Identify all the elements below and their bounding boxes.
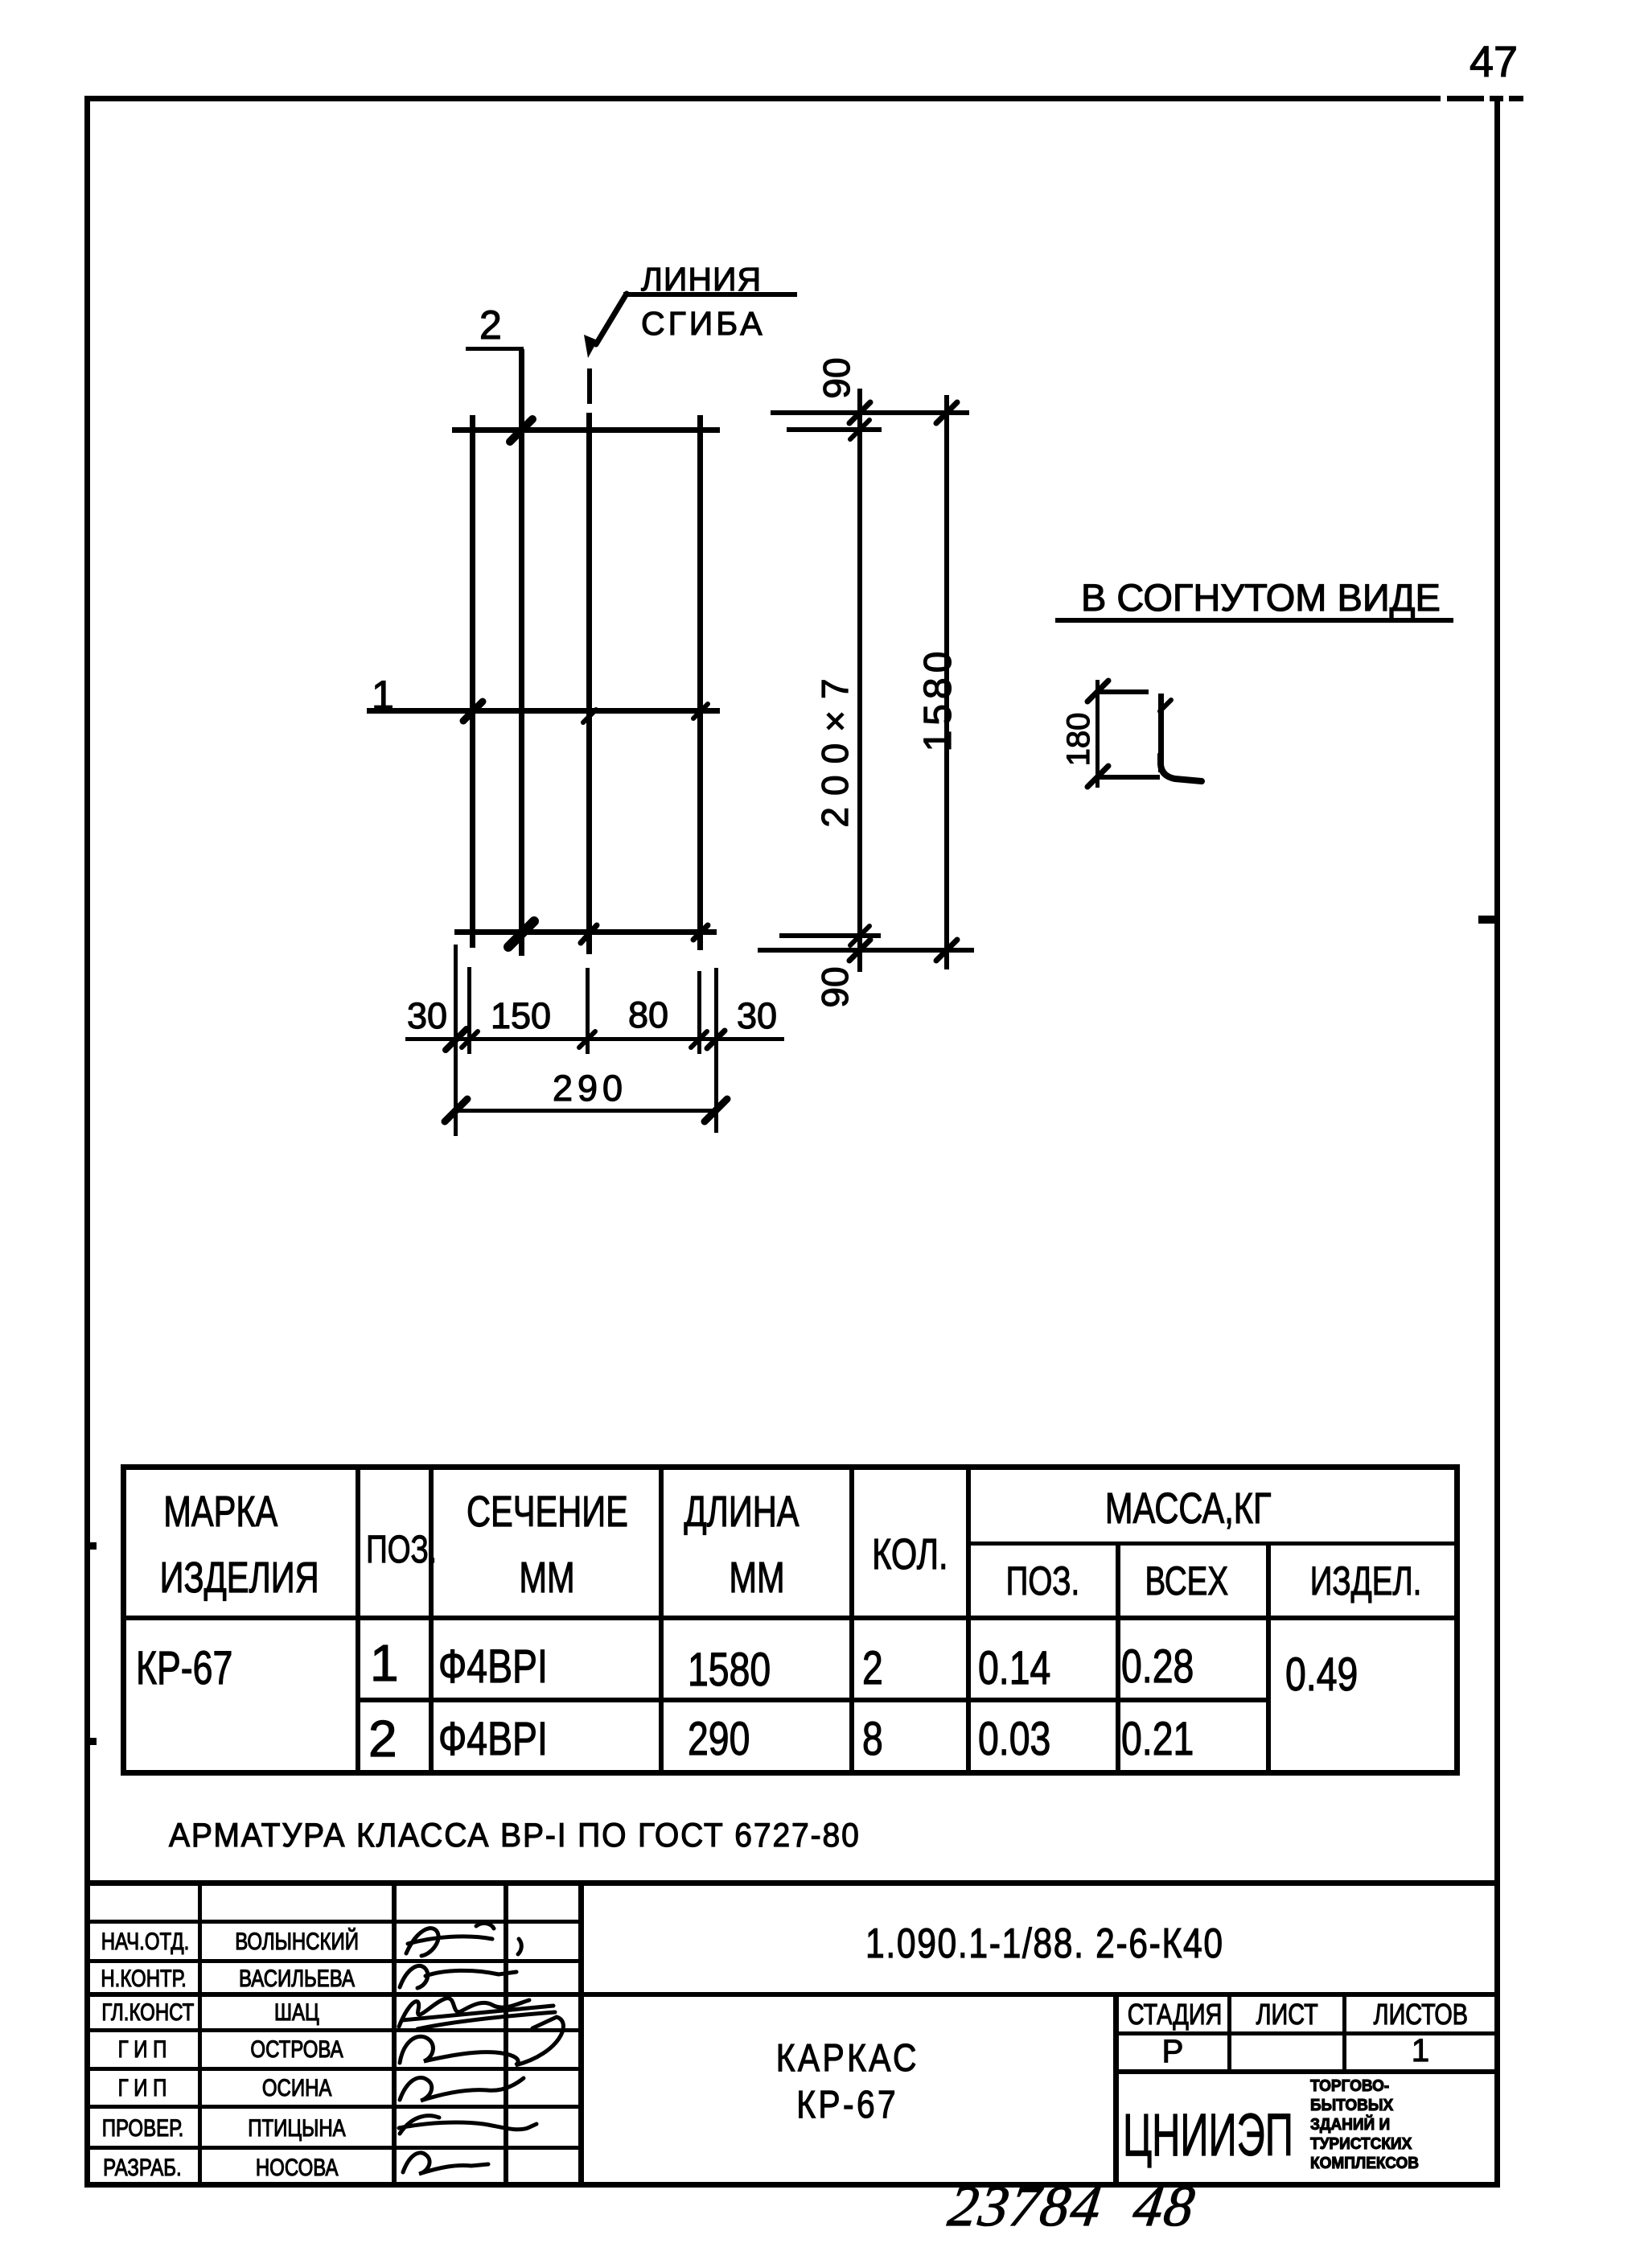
bent view vertical bar [1158,694,1164,772]
header text VSEKH [1110,1561,1263,1601]
label PROVER. [90,2117,195,2141]
weld tick at bottom bar x bar3 [581,925,597,943]
table column line POZ|SECHENIE [429,1464,434,1776]
label RAZRAB. [90,2156,195,2180]
title block column line 2 [392,1883,397,2185]
bent view dim tick 180 bottom [1087,766,1108,787]
title block column line 1 [198,1883,202,2185]
dim arrow tick 1580 top [936,402,957,423]
border top dash 2 [1490,96,1503,101]
data row2 mass poz 0.03 [978,1716,1069,1763]
border left nub 1 [90,1542,97,1550]
bent view dimension line 180 [1095,680,1100,788]
signature NACH.OTD. row [406,1923,494,1956]
dim text 180 (rotated) [1063,713,1095,767]
header text IZDELIYA [122,1556,357,1599]
header text POZ. [968,1561,1118,1601]
name SHATS [202,2001,392,2025]
table row divider line [356,1698,1271,1702]
dim text 90 bottom (rotated) [816,966,853,1007]
title block row line 3 + doc band bottom [85,1992,1498,1997]
dim arrow tick 30 left b [462,1031,478,1048]
stadia column line 1 [1227,1994,1231,2073]
stadia row line 2 [1116,2069,1498,2074]
dimension line 30/150/80/30 [405,1037,784,1041]
name VOLYNSKIY [202,1930,392,1954]
dim arrow tick 90 bottom b [849,940,870,961]
table column line POZ.|VSEKH [1116,1541,1120,1776]
text SGIBA [641,307,766,340]
name OSTROVA [202,2038,392,2062]
label GIP 2 [90,2077,195,2101]
bent view dim tick 180 top [1087,681,1108,702]
signature stray mark NACH.OTD. [518,1939,521,1954]
border right centering tick [1478,916,1495,924]
data row2 length 290 [688,1716,766,1763]
dimension line 290 [455,1109,717,1113]
data mass izdel 0.49 [1285,1652,1376,1698]
header text MARKA [103,1490,338,1533]
header text KOL [852,1533,968,1576]
rebar vertical bar 4 [697,415,703,950]
org name TSNIIEP [1123,2105,1381,2165]
border right line [1494,96,1500,2188]
header STADIYA [1116,2000,1230,2029]
table column line MARKA|POZ [356,1464,360,1776]
table column line KOL|MASSA [966,1464,971,1776]
org descriptor small text [1310,2077,1487,2173]
title block row line 7 [85,2146,581,2150]
dim arrow tick 30 left a [446,1029,467,1050]
title block column line 5 (middle|stadia) [1113,1994,1119,2185]
name OSINA [202,2077,392,2101]
label 2 text [479,305,502,345]
header text SECHENIE [432,1490,662,1533]
header LISTOV [1345,2000,1496,2029]
dim text 30 right [737,998,777,1034]
stadia value R [1116,2035,1230,2068]
stadia row line 1 [1116,2031,1498,2035]
rebar vertical bar 2 (poz.1) with label leader stem [519,349,524,956]
specification table outer left [121,1464,126,1776]
title block row line 4 [85,2028,581,2032]
bent view title underline [1055,618,1453,623]
dim text 80 [628,997,668,1033]
dim arrow tick 150|80 [579,1031,595,1048]
label NACH.OTD. [90,1930,195,1954]
specification table outer bottom [121,1770,1459,1776]
bent view bar top tick [1160,700,1171,711]
dim text 290 [553,1070,627,1106]
handwritten inventory number 23784 48 [945,2177,1199,2235]
bend line leader horizontal [623,292,797,297]
header text MASSA,KG [942,1487,1435,1530]
witness line bar1 [467,967,471,1054]
header text DLINA [647,1490,836,1533]
signature N.KONTR. row [400,1965,516,1988]
dim arrow tick 90 top a [849,402,870,423]
title block column line 4 [578,1883,584,2185]
listov value 1 [1345,2035,1496,2067]
bend line leader arrowhead [584,335,598,358]
title block top line [84,1880,1500,1886]
dim text 1580 (rotated) [919,647,958,752]
dim text 30 left [407,998,447,1034]
border left nub 2 [90,1738,97,1745]
title text KARKAS [584,2040,1111,2078]
specification table outer top [121,1464,1459,1470]
label 1 text [372,675,394,715]
dim arrow tick 80|30 a [691,1031,707,1048]
table column line DLINA|KOL [849,1464,854,1776]
bent view bottom leg [1095,775,1160,780]
witness line left outer [454,945,458,1136]
weld tick at bottom bar x bar2 [508,921,534,947]
name VASILYEVA [202,1967,392,1991]
border top line [87,96,1441,101]
note text ARMATURA [169,1818,912,1852]
title block row line 2 [85,1959,581,1963]
weld tick at middle bar x bar4 [693,704,708,718]
title block row line 5 [85,2067,581,2071]
dim text 200x7 (rotated) [816,667,853,827]
title text KR-67 [584,2086,1111,2125]
weld tick at top bar x bar2 [510,419,532,442]
header text POZ [356,1531,430,1570]
dim arrow tick 80|30 b [707,1031,725,1048]
dim text 90 top (rotated) [818,357,855,398]
bent view top leg [1095,689,1149,694]
dim text 150 [491,998,551,1034]
witness line bar4 [697,971,701,1054]
data row2 section F4BPI [438,1716,575,1763]
text LINIYA [641,263,762,296]
document number text [865,1923,1303,1965]
data row1 mass poz 0.14 [978,1645,1069,1692]
dim arrow tick 90 bottom a [850,926,869,945]
dimension top witness line 1 [771,410,969,415]
title block bottom line / border bottom [84,2182,1500,2188]
dimension bottom witness line 2 [758,948,974,953]
dimension bottom witness line 1 [779,933,881,938]
data row1 length 1580 [688,1647,791,1694]
rebar horizontal bar top (poz.2) [452,427,720,433]
data row2 mass vsekh 0.21 [1121,1716,1212,1763]
label 2 leader horizontal [466,347,524,351]
dimension vertical line B (1580) [944,395,949,969]
weld tick at middle bar x bar3 [583,710,596,722]
witness line right outer [714,968,718,1133]
bent view title [1081,578,1441,616]
bend line dash [587,368,592,404]
dimension top witness line 2 [787,427,882,432]
table column line SECHENIE|DLINA [659,1464,664,1776]
data row1 section F4BPI [438,1644,575,1690]
title block row line 6 [85,2105,581,2109]
table header bottom line [121,1616,1459,1620]
data row2 qty 8 [862,1716,888,1763]
dim arrow tick 1580 bottom [936,940,957,961]
rebar vertical bar 3 (bend line bar) [586,413,592,954]
weld tick at middle bar x bar1 [463,702,483,721]
dim arrow tick 90 top b [850,420,869,439]
border top dash 1 [1447,96,1484,101]
data text KR-67 [136,1645,261,1692]
title block row line 1 [85,1920,581,1924]
data row2 poz 2 [368,1713,397,1764]
stadia column line 2 [1342,1994,1346,2073]
name PTITSYNA [202,2117,392,2141]
label GIP 1 [90,2038,195,2062]
header text MM 2 [662,1556,852,1599]
specification table outer right [1454,1464,1460,1776]
title block column line 3 [504,1883,508,2185]
signature GIP OSINA row [400,2077,524,2101]
data row1 mass vsekh 0.28 [1121,1644,1212,1690]
rebar vertical bar 1 (poz.1) [470,415,475,948]
signature RAZRAB. row [403,2153,488,2174]
header text MM 1 [432,1556,662,1599]
bent view bar bottom hook [1161,755,1202,781]
name NOSOVA [202,2156,392,2180]
signature GL.KONST row (large scribble) [399,1998,555,2029]
bend line leader diagonal [596,294,627,344]
border top dash 3 [1509,96,1523,101]
signature GIP OSTROVA row [400,2017,563,2065]
label GL.KONST [90,2001,195,2025]
label N.KONTR. [90,1967,195,1991]
table column line VSEKH|IZDEL [1266,1541,1271,1776]
signature PROVER. row [399,2116,536,2134]
dim arrow tick 290 right [705,1099,727,1122]
border left line [84,96,90,2188]
page number 47 [1465,40,1522,84]
header text IZDEL. [1271,1561,1461,1601]
weld tick at bottom bar x bar4 [693,925,708,940]
header LIST [1230,2000,1345,2029]
data row1 qty 2 [862,1645,888,1692]
rebar horizontal bar bottom (poz.2) [454,929,717,935]
rebar horizontal bar middle (poz.2) with label-1 leader [367,708,720,714]
dimension vertical line A (200x7) [857,389,862,972]
witness line bar3 [586,968,590,1054]
table line under MASSA,KG [966,1541,1459,1546]
dim arrow tick 290 left [445,1099,467,1122]
data row1 poz 1 [370,1637,399,1689]
